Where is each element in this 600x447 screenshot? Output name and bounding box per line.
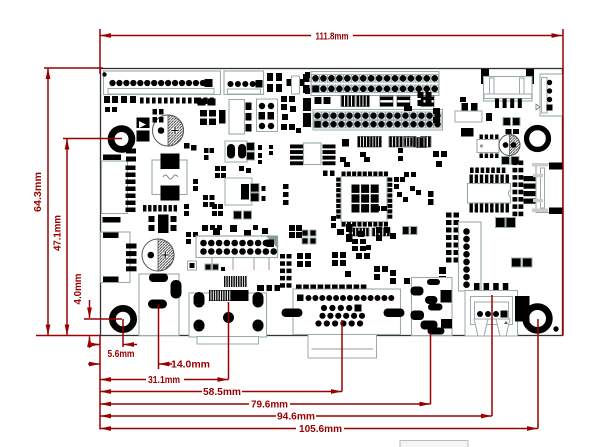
- dimension 47.1mm hole height: [53, 139, 123, 336]
- SMD resistor array row: [342, 137, 431, 148]
- svg-text:31.1mm: 31.1mm: [148, 375, 180, 386]
- pad array right of U7: [513, 161, 524, 217]
- inductor L1: [152, 154, 187, 201]
- dimension 105.6mm: [100, 319, 538, 435]
- dimension 5.6mm: [88, 319, 137, 360]
- connector CN2 backlight top-right: [481, 69, 534, 108]
- svg-text:94.6mm: 94.6mm: [277, 412, 315, 423]
- PCB board outline: [101, 69, 563, 336]
- SMD cluster center-left: [184, 143, 226, 244]
- mounting hole bottom-left: [112, 308, 133, 329]
- SMD resistor row below CN1: [315, 96, 435, 107]
- SMD cluster center-left mid: [225, 166, 289, 219]
- dimension 111.8mm overall width: [100, 29, 563, 336]
- capacitor C2 electrolytic: [142, 239, 174, 271]
- connector VGA J6: [282, 285, 405, 359]
- SMD below CN9: [188, 261, 226, 271]
- svg-text:105.6mm: 105.6mm: [299, 424, 342, 435]
- capacitor C1 electrolytic: [153, 115, 184, 146]
- connector J2 5-pin header: [224, 71, 264, 95]
- connector CN3 left edge upper: [102, 149, 137, 223]
- dimension 64.3mm overall height: [33, 68, 103, 336]
- dimension 58.5mm: [100, 320, 342, 398]
- op-amp U2 SOP-8: [290, 143, 336, 165]
- optocoupler U8 with ovals: [225, 141, 273, 164]
- SMD pads left of CN6: [303, 98, 311, 127]
- SMD scatter above CN9: [202, 225, 302, 238]
- connector J9 pin column: [459, 222, 482, 291]
- AV connector J8: [465, 283, 518, 336]
- connector CN1 dual-row header: [311, 72, 439, 96]
- dimension 4.0mm hole offset: [73, 273, 122, 348]
- pad pair below C3: [502, 157, 520, 165]
- svg-text:64.3mm: 64.3mm: [33, 172, 44, 212]
- svg-text:5.6mm: 5.6mm: [108, 349, 135, 360]
- pad pair below U7: [496, 218, 516, 228]
- SMD scatter center-bottom: [297, 148, 447, 284]
- connector CN4 left edge lower: [101, 232, 137, 283]
- board origin dot: [102, 72, 106, 76]
- SMD row below J1: [104, 96, 214, 123]
- connector CN10 right edge: [532, 163, 563, 215]
- dimension 14.0mm: [88, 304, 210, 371]
- SMD pads left of CN1: [303, 74, 310, 93]
- svg-text:4.0mm: 4.0mm: [73, 273, 84, 304]
- capacitor C3 electrolytic: [499, 135, 520, 156]
- dimension 94.6mm: [100, 295, 492, 423]
- SMD cluster and CN7 pads center-right: [404, 92, 440, 148]
- microcontroller U1 QFP: [323, 171, 392, 227]
- partial box bottom edge: [400, 441, 468, 447]
- SMD cluster right of U1: [394, 177, 408, 202]
- SMD cluster right-mid upper: [455, 97, 492, 122]
- SMD cluster left of CN6: [281, 96, 301, 133]
- diode D1: [137, 118, 150, 142]
- component right of J8: [515, 296, 530, 322]
- mounting hole bottom-right: [526, 307, 550, 331]
- mounting hole top-right: [527, 128, 549, 150]
- dimension 31.1mm: [100, 302, 229, 386]
- pad array CN8: [446, 213, 459, 263]
- svg-text:58.5mm: 58.5mm: [203, 387, 241, 398]
- pad array left of VGA: [280, 254, 292, 288]
- mounting hole top-left: [111, 129, 132, 150]
- regulator U4 SOIC-8: [477, 135, 499, 159]
- pad pair below CN2: [503, 118, 520, 135]
- SMD cluster right of J2: [267, 72, 310, 94]
- pads center-bottom upper: [302, 224, 417, 244]
- SMD row below U1: [337, 228, 390, 251]
- connector J1 30-pin header top-left: [104, 71, 221, 95]
- connector CN9 dual-row 20-pin: [196, 236, 278, 270]
- svg-text:47.1mm: 47.1mm: [53, 215, 64, 251]
- component U6 6-pad: [257, 99, 278, 132]
- connector footprint CN5: [229, 100, 252, 135]
- tilted SMD pair: [340, 152, 370, 167]
- svg-text:79.6mm: 79.6mm: [251, 400, 288, 411]
- svg-text:14.0mm: 14.0mm: [171, 360, 210, 371]
- driver U7 SOIC-14: [468, 168, 511, 213]
- dimension 79.6mm: [100, 333, 431, 411]
- via dot bottom-right: [553, 326, 558, 331]
- power jack J4: [139, 274, 182, 336]
- pad pair right lower: [512, 258, 533, 267]
- extension line left edge: [99, 336, 101, 430]
- connector CN6 dual-row header middle: [313, 110, 443, 131]
- IC U3: [461, 128, 474, 137]
- audio jack J7: [411, 278, 453, 336]
- SMD cluster below J2 left: [198, 99, 226, 126]
- connector J3 4-pin right edge: [536, 74, 563, 116]
- regulator U5 with pads: [143, 205, 177, 233]
- pad bars right edge: [524, 176, 538, 204]
- connector HDMI J5: [189, 276, 267, 344]
- svg-text:111.8mm: 111.8mm: [316, 31, 349, 42]
- pads above VGA: [257, 285, 280, 291]
